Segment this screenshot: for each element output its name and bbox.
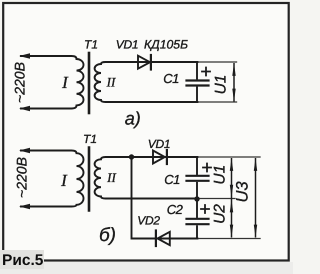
svg-text:II: II	[106, 170, 116, 185]
svg-text:U1: U1	[213, 75, 230, 95]
svg-text:C2: C2	[167, 202, 184, 217]
svg-text:~220В: ~220В	[12, 62, 28, 103]
svg-text:T1: T1	[83, 132, 97, 146]
svg-text:б): б)	[99, 225, 116, 246]
svg-text:C1: C1	[164, 172, 180, 187]
svg-text:U1: U1	[212, 165, 229, 185]
svg-text:Рис.5: Рис.5	[2, 252, 44, 269]
svg-text:II: II	[106, 75, 116, 90]
svg-text:VD1: VD1	[148, 137, 170, 151]
svg-text:U2: U2	[212, 204, 229, 224]
svg-text:U3: U3	[234, 181, 252, 203]
svg-text:C1: C1	[163, 71, 179, 86]
svg-text:T1: T1	[84, 38, 98, 52]
svg-text:VD1: VD1	[116, 38, 138, 52]
svg-text:КД105Б: КД105Б	[144, 38, 188, 52]
svg-text:VD2: VD2	[137, 214, 160, 228]
svg-text:а): а)	[125, 109, 141, 129]
svg-text:~220В: ~220В	[14, 157, 30, 198]
